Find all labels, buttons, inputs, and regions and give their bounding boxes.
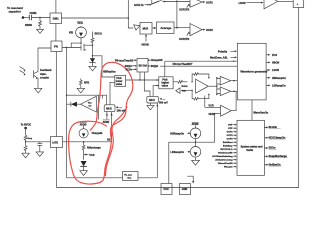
svg-text:Rdischarge: Rdischarge bbox=[87, 147, 101, 150]
svg-text:OCP3: OCP3 bbox=[227, 139, 234, 141]
driver LSON bbox=[247, 2, 263, 4]
node junction bbox=[25, 141, 26, 142]
ground bbox=[77, 86, 84, 93]
svg-text:100 mV: 100 mV bbox=[117, 109, 126, 112]
wire bbox=[80, 38, 82, 44]
wire wavegen outputs bbox=[266, 55, 269, 86]
wire HCM out bbox=[231, 91, 236, 110]
svg-text:HSON: HSON bbox=[142, 43, 149, 46]
node junction bbox=[39, 17, 40, 18]
box divider bbox=[293, 0, 304, 8]
capacitor bbox=[37, 142, 42, 147]
red annotation outer loop bbox=[69, 62, 133, 184]
node junction bbox=[139, 79, 140, 80]
svg-text:OTP: OTP bbox=[228, 128, 233, 130]
svg-text:AVDD: AVDD bbox=[80, 123, 87, 126]
wire mux bottom left to AVSS bbox=[106, 112, 108, 120]
box MUX right (300mV) bbox=[147, 96, 159, 103]
wire bbox=[278, 0, 293, 2]
node junction bbox=[66, 47, 67, 48]
svg-text:OCP1: OCP1 bbox=[206, 1, 213, 4]
svg-text:HCODetectWr: HCODetectWr bbox=[218, 152, 233, 155]
wire input2 bbox=[110, 82, 115, 105]
pin box FN bbox=[51, 41, 62, 52]
svg-text:BrstOn: BrstOn bbox=[269, 126, 278, 129]
svg-text:IFB: IFB bbox=[69, 32, 73, 35]
svg-text:ACSmbCrossing: ACSmbCrossing bbox=[215, 159, 233, 162]
supply chain To RVCC bbox=[24, 127, 27, 130]
svg-text:300 mV: 300 mV bbox=[159, 102, 168, 105]
svg-text:LSRampOn: LSRampOn bbox=[272, 85, 286, 88]
svg-text:FltLatch: FltLatch bbox=[224, 166, 233, 169]
current source IFB bbox=[76, 27, 87, 38]
wire outputs bbox=[148, 60, 150, 66]
comparator A bbox=[220, 76, 231, 85]
svg-text:RVCCUVLO: RVCCUVLO bbox=[220, 149, 233, 151]
svg-text:RFB: RFB bbox=[84, 81, 89, 84]
svg-text:RVCO: RVCO bbox=[95, 33, 102, 36]
wire bbox=[32, 17, 50, 19]
svg-text:GM1: GM1 bbox=[53, 17, 60, 21]
wire mux2 down bbox=[156, 103, 158, 178]
svg-text:GCFLTn: GCFLTn bbox=[134, 4, 144, 7]
svg-text:LSON: LSON bbox=[239, 2, 246, 5]
svg-text:ChargeSS: ChargeSS bbox=[151, 59, 163, 62]
wire bbox=[99, 95, 103, 119]
wire ssctrl bottom bbox=[140, 72, 159, 96]
svg-text:MUX: MUX bbox=[106, 107, 112, 110]
wire average out bbox=[174, 27, 190, 29]
svg-text:Rsup: Rsup bbox=[28, 138, 32, 140]
wire icom out bbox=[208, 85, 217, 87]
resistor RSNS bbox=[39, 18, 42, 28]
svg-text:VCO: VCO bbox=[77, 22, 82, 25]
current source ChargeIb bbox=[79, 129, 88, 138]
zener diode bbox=[90, 56, 96, 64]
op-amp TD (points left) bbox=[81, 96, 97, 112]
box Pick higher value bbox=[159, 77, 173, 89]
resistor lower bbox=[24, 142, 27, 152]
svg-text:Gen.: Gen. bbox=[127, 178, 132, 180]
wire bbox=[128, 0, 133, 28]
svg-text:Fw_ams: Fw_ams bbox=[124, 175, 131, 177]
svg-text:To RVCC: To RVCC bbox=[21, 124, 32, 127]
transistor current mirror bbox=[80, 44, 93, 51]
svg-text:OCP2: OCP2 bbox=[227, 135, 234, 137]
wire inputs bbox=[131, 60, 137, 69]
wire rail bottom bbox=[67, 177, 158, 179]
chevron clamp symbol bbox=[133, 25, 140, 31]
wire bbox=[92, 45, 94, 56]
ground bbox=[89, 63, 96, 71]
svg-text:LSRampOn: LSRampOn bbox=[170, 151, 184, 154]
wire between sources bbox=[195, 139, 197, 147]
wire system inputs bbox=[233, 125, 236, 167]
wire comparator outputs bbox=[231, 81, 238, 92]
IC border right wire from divider bbox=[298, 8, 300, 188]
box MUX top bbox=[140, 23, 152, 35]
wire HSON input bbox=[145, 36, 147, 42]
wire MUX top left bbox=[106, 95, 108, 105]
svg-text:÷: ÷ bbox=[297, 2, 299, 6]
svg-text:TDct: TDct bbox=[88, 102, 92, 105]
wire wavegen to system bbox=[251, 100, 253, 120]
svg-text:MUX: MUX bbox=[149, 99, 155, 102]
box MUX lower mid bbox=[104, 105, 115, 112]
ground bbox=[192, 157, 200, 165]
svg-text:capacitor: capacitor bbox=[9, 10, 22, 14]
node junction bbox=[83, 141, 85, 143]
ground bbox=[37, 28, 44, 34]
wire charge rail bbox=[63, 141, 112, 143]
wire bbox=[23, 17, 29, 19]
wire feedback rail vertical bbox=[66, 48, 68, 178]
box Fw latch gen bbox=[123, 172, 139, 181]
node junction bbox=[92, 55, 93, 56]
node junction bbox=[80, 42, 81, 43]
IC border left edge bbox=[55, 0, 58, 188]
ground bbox=[36, 147, 43, 157]
svg-text:LSON: LSON bbox=[272, 69, 279, 72]
optocoupler transistor bbox=[34, 70, 38, 89]
svg-text:Gsl: Gsl bbox=[88, 105, 91, 107]
wire bbox=[71, 43, 81, 47]
svg-text:Waveform generator: Waveform generator bbox=[240, 70, 268, 74]
svg-text:RcapDischarge: RcapDischarge bbox=[269, 155, 288, 158]
pin box SUPIC bbox=[51, 137, 63, 148]
svg-text:FB<xxxThanSS: FB<xxxThanSS bbox=[115, 59, 134, 62]
diode to ground bbox=[81, 161, 87, 166]
svg-text:SS(t)<: SS(t)< bbox=[125, 65, 133, 68]
IC border bottom edge bbox=[57, 187, 299, 189]
svg-text:VCS: VCS bbox=[89, 154, 94, 157]
wire to VCR bbox=[169, 142, 196, 183]
chevron VMx bbox=[176, 88, 180, 94]
resistor Rdischarge bbox=[82, 142, 85, 152]
node junction bbox=[66, 95, 67, 96]
ground bbox=[147, 103, 154, 110]
box Average bbox=[157, 22, 175, 34]
ground bbox=[35, 88, 42, 93]
wire bbox=[67, 94, 107, 96]
optocoupler light arrows bbox=[20, 67, 25, 74]
resistor Icom fb top bbox=[192, 73, 209, 82]
svg-text:HCOClampOn: HCOClampOn bbox=[269, 137, 286, 140]
op-amp Icom bbox=[196, 79, 209, 93]
svg-text:HBReplica: HBReplica bbox=[103, 71, 116, 74]
current source LSRampOn bbox=[190, 147, 201, 158]
comparator OCP1 (clipped) bbox=[190, 0, 202, 7]
svg-text:RSNS: RSNS bbox=[25, 24, 32, 27]
svg-text:SS-Ctrl: SS-Ctrl bbox=[139, 64, 148, 67]
svg-text:—: — bbox=[163, 98, 166, 101]
wire output to pick higher bbox=[126, 79, 159, 81]
svg-text:GND: GND bbox=[182, 188, 188, 191]
svg-text:IuTG: IuTG bbox=[52, 141, 58, 144]
svg-text:AVDD: AVDD bbox=[192, 123, 199, 126]
svg-text:HSRampOn: HSRampOn bbox=[170, 132, 184, 135]
svg-text:FB<xxxThanBKT: FB<xxxThanBKT bbox=[173, 63, 194, 66]
svg-text:OCP2: OCP2 bbox=[206, 29, 213, 32]
svg-text:VCR: VCR bbox=[208, 105, 213, 108]
svg-text:Polarity: Polarity bbox=[218, 50, 228, 53]
amplifier triangle clipped bbox=[264, 0, 278, 9]
comparator OCP2 bbox=[190, 24, 202, 36]
wire nextzone input bbox=[231, 56, 236, 58]
VCS tap bbox=[84, 152, 89, 160]
comparator B bbox=[220, 87, 231, 96]
node to resonant capacitor bbox=[22, 16, 25, 19]
wire bbox=[26, 141, 51, 143]
svg-text:OVP: OVP bbox=[228, 125, 233, 127]
svg-text:MUX: MUX bbox=[143, 27, 149, 30]
svg-text:value: value bbox=[116, 83, 123, 86]
svg-text:Opto-: Opto- bbox=[40, 73, 47, 76]
svg-text:HCM*: HCM* bbox=[209, 113, 216, 116]
node junction bbox=[191, 81, 192, 82]
svg-text:OCP2TN: OCP2TN bbox=[179, 38, 189, 41]
svg-text:CSNS: CSNS bbox=[30, 12, 37, 15]
resistor Icom input bbox=[173, 80, 187, 83]
svg-text:VCS<: VCS< bbox=[125, 68, 132, 71]
svg-text:BcktStart: BcktStart bbox=[223, 141, 233, 144]
resistor Rsup bbox=[24, 128, 27, 142]
svg-text:HSRampOn: HSRampOn bbox=[272, 77, 286, 80]
pin box GM1 bbox=[50, 13, 62, 24]
capacitor CSNS bbox=[29, 15, 31, 20]
svg-text:Feedback: Feedback bbox=[40, 69, 52, 72]
switch GCFLTn bbox=[145, 4, 149, 6]
box Pick lower value bbox=[115, 75, 126, 86]
pin box VCR bbox=[161, 184, 172, 195]
svg-text:coupler: coupler bbox=[40, 76, 49, 79]
resistor RFB bbox=[79, 79, 82, 87]
ground bbox=[22, 152, 29, 158]
svg-text:ZCS: ZCS bbox=[272, 54, 277, 57]
svg-text:ChargeIb: ChargeIb bbox=[92, 132, 103, 135]
wire 300mV ref bbox=[160, 98, 162, 100]
optocoupler wire bbox=[38, 48, 51, 70]
wire polarity input bbox=[231, 50, 236, 52]
svg-text:NextZone_ASL: NextZone_ASL bbox=[210, 57, 228, 60]
red annotation inner stroke bbox=[105, 107, 127, 177]
box System states and faults bbox=[237, 120, 264, 175]
wire to HCM bbox=[196, 113, 221, 142]
svg-text:OCP1: OCP1 bbox=[227, 132, 234, 134]
wire HCM top input bbox=[205, 96, 221, 108]
wire 100mV ref bbox=[116, 106, 119, 108]
current source HSRampOn bbox=[190, 128, 201, 139]
svg-text:WaveGenOn: WaveGenOn bbox=[253, 111, 268, 114]
label system inputs bbox=[212, 125, 233, 169]
box SS-Ctrl bbox=[137, 59, 148, 73]
svg-text:SS(t)d: SS(t)d bbox=[151, 65, 159, 68]
node junction bbox=[92, 45, 93, 46]
svg-text:AVSS: AVSS bbox=[103, 121, 110, 124]
wire vertical clipped bbox=[176, 0, 178, 28]
box Waveform generator bbox=[237, 43, 266, 100]
wire FBltBKT rail bbox=[160, 61, 237, 77]
comparator HCM bbox=[221, 105, 232, 116]
svg-text:HCOStartSwitching: HCOStartSwitching bbox=[212, 155, 233, 158]
svg-text:Icom: Icom bbox=[182, 85, 189, 88]
svg-text:HSON: HSON bbox=[272, 62, 279, 65]
svg-text:VMx: VMx bbox=[182, 91, 186, 93]
comparator clipped top bbox=[152, 0, 162, 4]
wire HBReplica node bbox=[93, 56, 116, 77]
svg-text:PAussiTranWt: PAussiTranWt bbox=[218, 162, 233, 165]
wire comp feeds bbox=[217, 78, 220, 95]
svg-text:BcktStop: BcktStop bbox=[223, 145, 233, 148]
node junction bbox=[128, 17, 130, 19]
svg-text:VCR: VCR bbox=[163, 188, 168, 191]
pin box GND bbox=[180, 184, 191, 195]
wire mux out bbox=[152, 27, 155, 29]
svg-text:faults: faults bbox=[246, 149, 253, 152]
wire GM1 rail bbox=[62, 17, 129, 19]
svg-text:Average: Average bbox=[160, 26, 171, 30]
svg-text:value: value bbox=[162, 84, 169, 87]
resistor Icom fb bottom bbox=[192, 90, 209, 100]
svg-text:OCP1TN: OCP1TN bbox=[179, 9, 189, 12]
wire mux bottom right to rail bbox=[111, 112, 113, 142]
resistor RVCO bbox=[91, 32, 94, 45]
wire FN rail bbox=[62, 47, 80, 49]
diode bbox=[67, 102, 81, 107]
wire system outputs bbox=[264, 128, 267, 165]
svg-text:HolSysOn: HolSysOn bbox=[269, 164, 281, 167]
svg-text:SSOn: SSOn bbox=[269, 147, 276, 150]
GND return arrow bbox=[187, 176, 193, 182]
svg-text:SS: SS bbox=[107, 139, 111, 142]
svg-text:FN: FN bbox=[54, 45, 58, 49]
